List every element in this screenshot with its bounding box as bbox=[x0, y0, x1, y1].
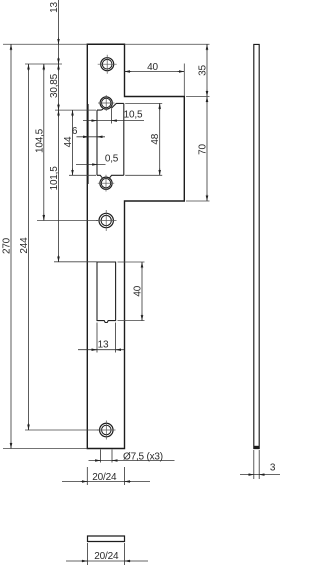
dimension 44 bbox=[72, 110, 74, 175]
dimension 35 bbox=[206, 44, 208, 96]
svg-text:40: 40 bbox=[147, 62, 158, 73]
svg-text:20/24: 20/24 bbox=[94, 551, 119, 562]
dimension 48 bbox=[159, 103, 161, 175]
extension line cutout top left bbox=[55, 109, 96, 111]
latch cutout bottom edge bbox=[97, 175, 124, 178]
svg-text:10,5: 10,5 bbox=[124, 110, 143, 121]
side view bottom cap bbox=[254, 446, 260, 449]
extension line 48 top bbox=[125, 102, 162, 104]
extension line step top right bbox=[186, 96, 210, 98]
svg-text:101,5: 101,5 bbox=[49, 166, 60, 191]
svg-text:48: 48 bbox=[150, 133, 161, 144]
small hole S1 bbox=[98, 95, 115, 111]
dimension 20/24 main bbox=[62, 467, 150, 485]
extension line recess top right bbox=[118, 261, 145, 263]
extension line hole2 centre bbox=[37, 220, 98, 222]
svg-text:Ø7,5 (x3): Ø7,5 (x3) bbox=[123, 452, 163, 463]
lower latch recess rectangle bbox=[97, 262, 116, 323]
dimension 270 bbox=[10, 44, 12, 448]
dimension 40 lower bbox=[141, 262, 143, 321]
svg-text:104,5: 104,5 bbox=[34, 128, 45, 153]
extension line cutout bottom left bbox=[69, 174, 96, 176]
svg-text:44: 44 bbox=[63, 136, 74, 147]
svg-text:70: 70 bbox=[198, 144, 209, 155]
svg-text:13: 13 bbox=[98, 339, 109, 350]
svg-text:20/24: 20/24 bbox=[92, 472, 117, 483]
screw hole H2 bbox=[96, 210, 117, 231]
svg-text:3: 3 bbox=[270, 463, 276, 474]
svg-text:40: 40 bbox=[133, 285, 144, 296]
dimension 20/24 bottom bbox=[66, 543, 148, 565]
dimension 3 bbox=[240, 450, 280, 479]
extension line 48 bottom bbox=[125, 174, 162, 176]
dimension 13 lower bbox=[78, 323, 124, 353]
svg-text:35: 35 bbox=[198, 65, 209, 76]
extension line bottom edge left bbox=[3, 448, 87, 450]
extension line 40 right bbox=[183, 64, 185, 97]
front view plate outline bbox=[87, 44, 184, 448]
extension line recess top left bbox=[54, 261, 97, 263]
extension line step bottom right bbox=[186, 200, 210, 202]
latch cutout left edge bbox=[96, 110, 98, 175]
screw hole H3 bbox=[97, 421, 116, 440]
dimension 70 bbox=[206, 97, 208, 202]
small hole S2 bbox=[98, 175, 114, 192]
svg-text:13: 13 bbox=[49, 2, 60, 13]
dimension 244 bbox=[28, 64, 30, 430]
bottom view strip bbox=[88, 536, 125, 542]
dimension 6 bbox=[77, 136, 106, 138]
svg-text:270: 270 bbox=[2, 237, 13, 254]
extension line top edge right bbox=[125, 43, 210, 45]
extension line hole3 centre bbox=[25, 429, 99, 431]
latch cutout right edge bbox=[123, 103, 125, 175]
dimension 0,5 bbox=[76, 164, 106, 166]
latch cutout top-right chamfer bbox=[111, 103, 123, 108]
screw hole H1 bbox=[98, 55, 117, 74]
side view plate bbox=[254, 44, 259, 448]
svg-text:0,5: 0,5 bbox=[105, 153, 119, 164]
dimension 104,5 bbox=[43, 64, 45, 221]
lip fold line bbox=[88, 104, 90, 184]
svg-text:244: 244 bbox=[19, 237, 30, 254]
svg-text:30,85: 30,85 bbox=[49, 73, 60, 98]
dimension 40 top bbox=[125, 71, 185, 73]
dimension 10,5 bbox=[83, 109, 144, 124]
svg-text:6: 6 bbox=[72, 126, 78, 137]
dimension dia 7,5 bbox=[89, 450, 175, 463]
latch cutout top-left edge bbox=[97, 108, 103, 111]
extension line hole1 centre bbox=[25, 63, 62, 65]
dimension 13 / 30,85 / 101,5 shared line bbox=[58, 0, 60, 262]
extension line top edge left bbox=[3, 43, 87, 45]
extension line recess bottom right bbox=[118, 320, 145, 322]
